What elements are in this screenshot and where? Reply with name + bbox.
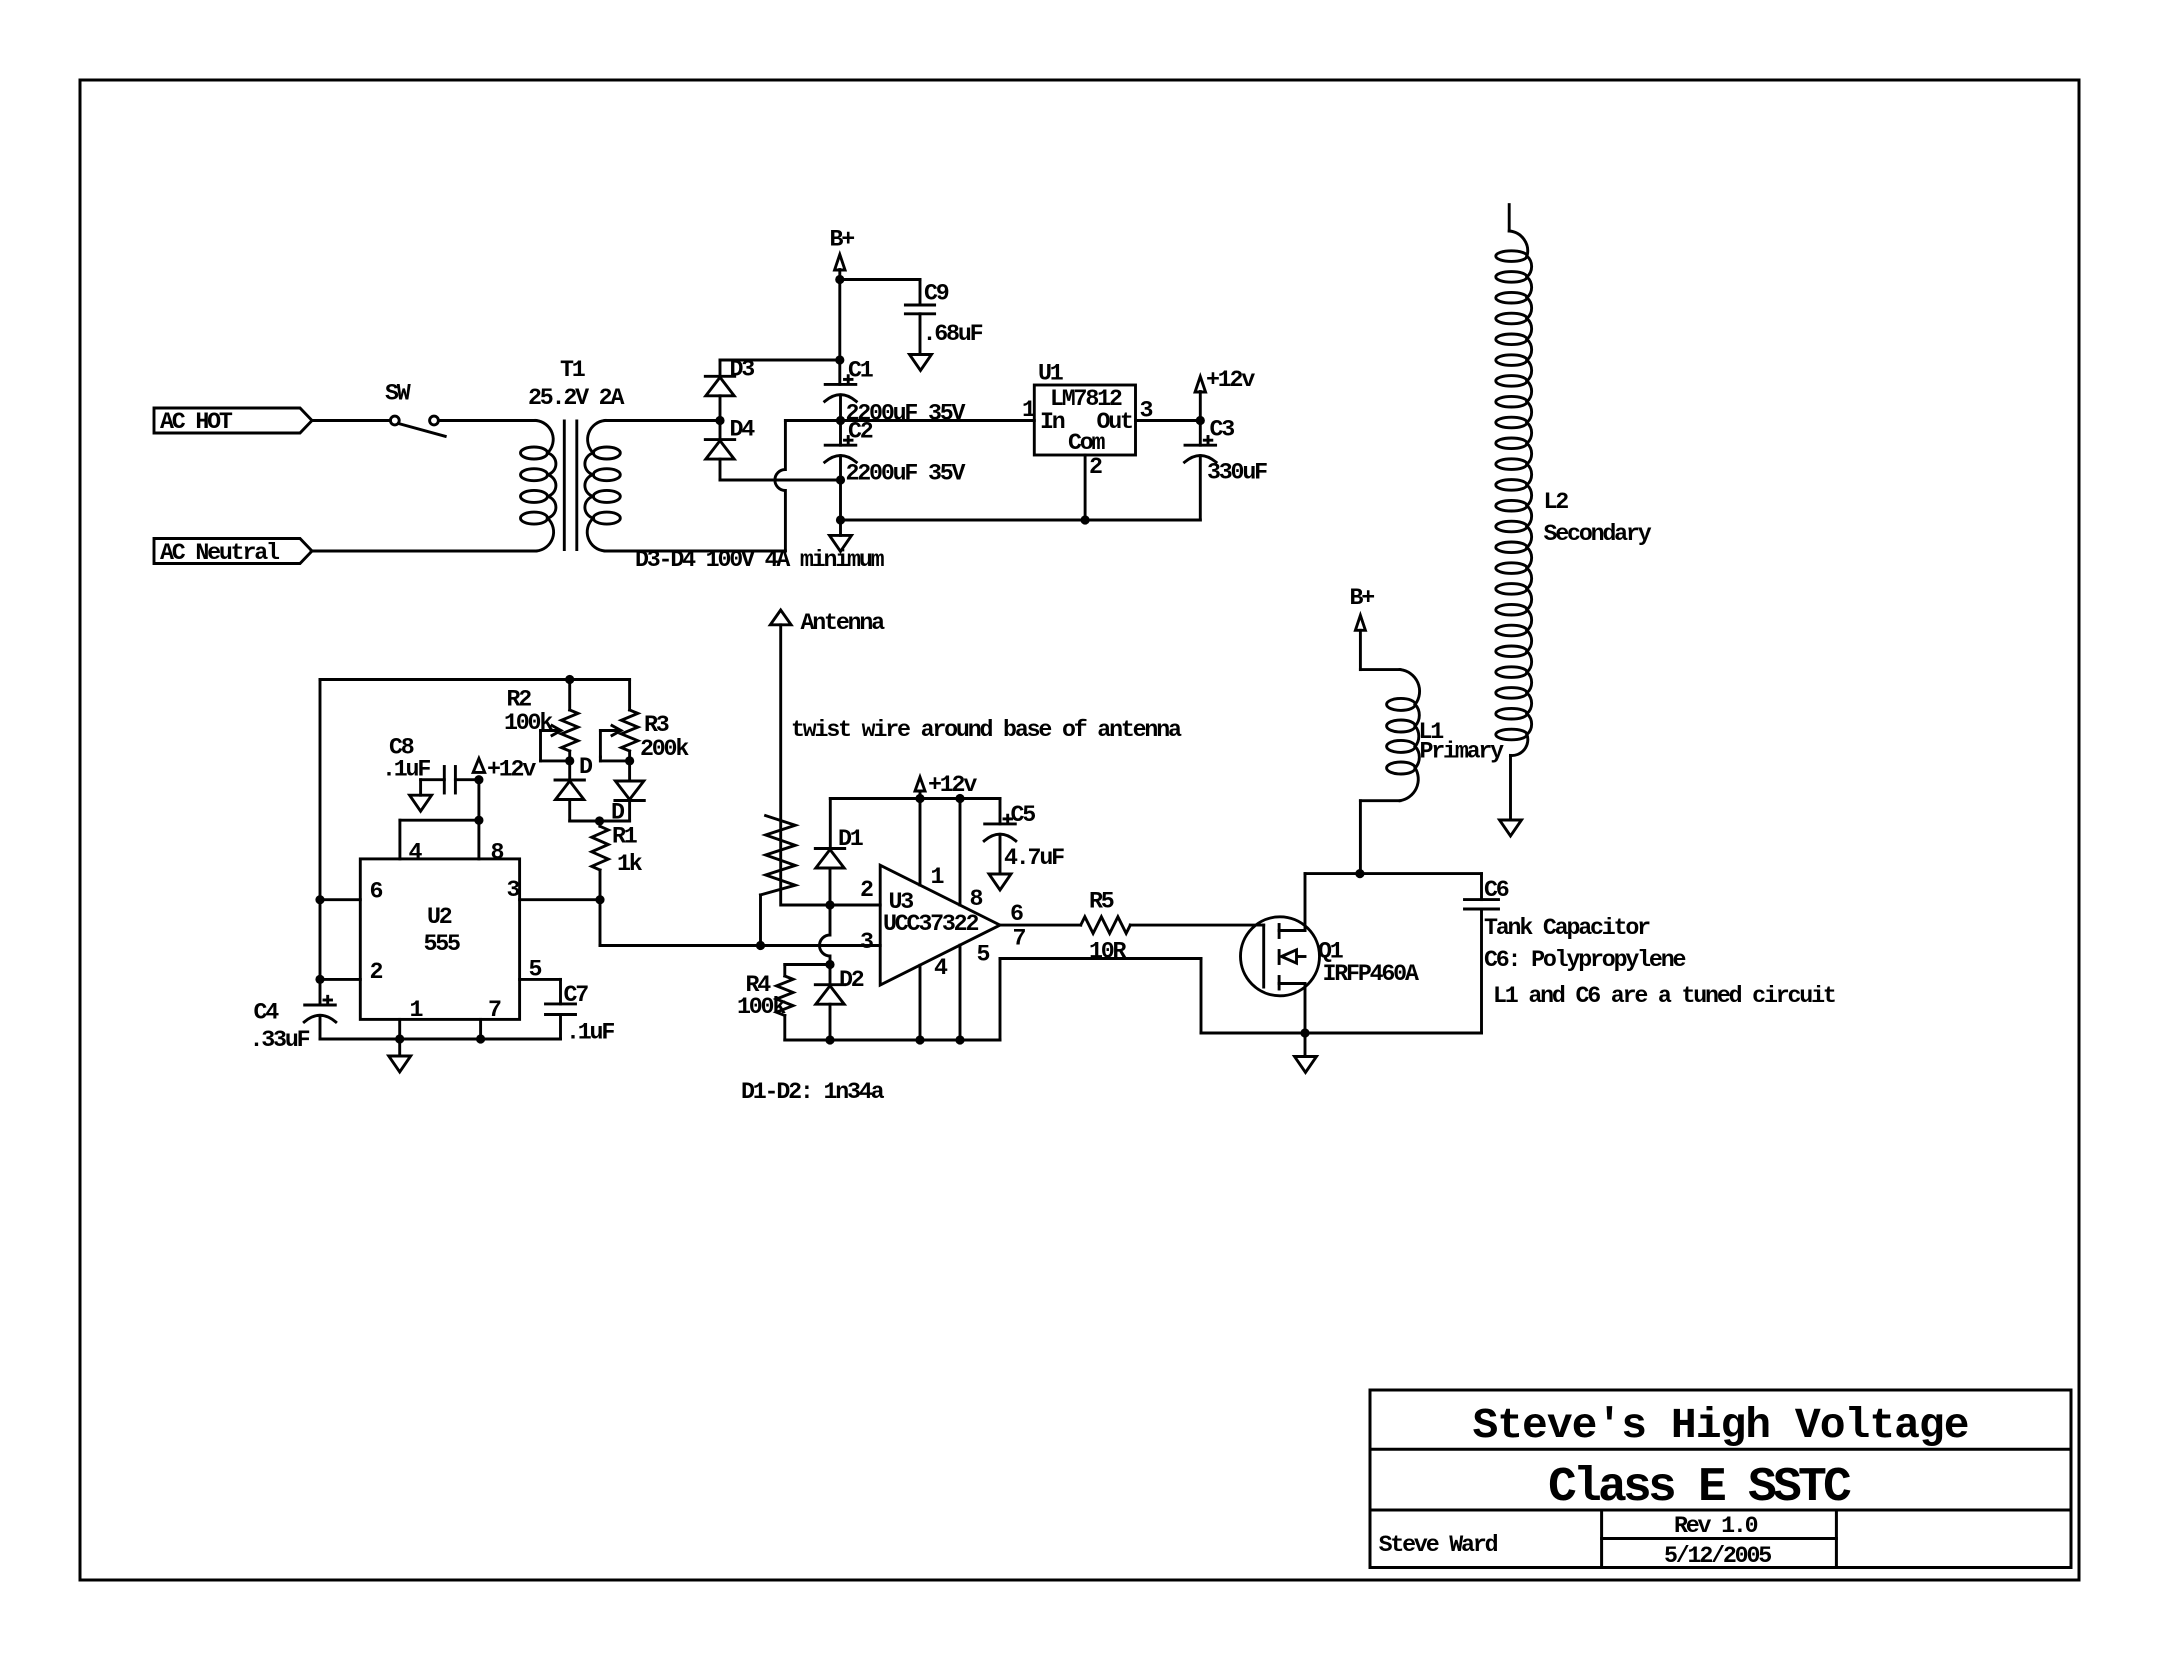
wire bbox=[1360, 799, 1400, 802]
wire bbox=[1200, 959, 1203, 1034]
wire bbox=[781, 904, 880, 907]
svg-text:Antenna: Antenna bbox=[801, 610, 886, 636]
title block vertical divider right bbox=[1835, 1510, 1838, 1568]
svg-text:C6: C6 bbox=[1484, 877, 1509, 903]
wire bbox=[419, 780, 422, 796]
Q1 gate bar bbox=[1262, 925, 1265, 987]
svg-text:2200uF 35V: 2200uF 35V bbox=[846, 461, 966, 487]
wire bbox=[628, 751, 631, 761]
svg-text:C7: C7 bbox=[564, 982, 589, 1008]
wire bbox=[628, 680, 631, 711]
svg-text:Com: Com bbox=[1068, 430, 1106, 456]
ground bbox=[830, 535, 852, 551]
wire bbox=[785, 963, 830, 966]
svg-text:1: 1 bbox=[931, 864, 944, 890]
regulator U1 box bbox=[1034, 385, 1135, 455]
node bbox=[565, 756, 574, 765]
wire bbox=[600, 944, 880, 947]
wire antenna bbox=[779, 625, 782, 905]
node bbox=[595, 816, 604, 825]
svg-text:3: 3 bbox=[860, 929, 873, 955]
node bbox=[476, 1034, 485, 1043]
wire bbox=[839, 395, 842, 421]
svg-text:R1: R1 bbox=[612, 824, 637, 850]
wire bbox=[311, 550, 536, 553]
wire bbox=[829, 868, 832, 905]
wire bbox=[312, 419, 390, 422]
diode D (right) bbox=[615, 781, 643, 800]
wire bbox=[719, 421, 722, 440]
svg-text:C6: Polypropylene: C6: Polypropylene bbox=[1484, 947, 1685, 973]
svg-text:+12v: +12v bbox=[487, 757, 536, 783]
svg-text:Tank Capacitor: Tank Capacitor bbox=[1484, 915, 1650, 941]
capacitor C9 bbox=[905, 304, 934, 307]
wire bbox=[838, 280, 841, 361]
resistor R5 bbox=[1081, 917, 1131, 934]
svg-text:C9: C9 bbox=[924, 281, 949, 307]
resistor R1 bbox=[592, 826, 609, 870]
node bbox=[1196, 416, 1205, 425]
svg-text:B+: B+ bbox=[830, 227, 855, 253]
capacitor C3 bbox=[1185, 444, 1216, 447]
svg-text:R3: R3 bbox=[644, 712, 669, 738]
twist wire zigzag bbox=[761, 816, 796, 895]
svg-text:U2: U2 bbox=[427, 904, 452, 930]
diode D2 bbox=[815, 983, 844, 986]
wire bbox=[785, 419, 1034, 422]
svg-text:Steve's High Voltage: Steve's High Voltage bbox=[1472, 1401, 1968, 1450]
svg-text:D4: D4 bbox=[730, 417, 756, 443]
wire bbox=[568, 800, 571, 822]
svg-text:5/12/2005: 5/12/2005 bbox=[1664, 1543, 1771, 1569]
svg-text:1: 1 bbox=[1022, 397, 1035, 423]
power arrow +12v bbox=[915, 777, 925, 791]
title block divider 1 bbox=[1370, 1448, 2071, 1451]
wire bbox=[919, 314, 922, 354]
wire bbox=[1480, 909, 1483, 1033]
svg-text:IRFP460A: IRFP460A bbox=[1323, 961, 1419, 987]
svg-text:D2: D2 bbox=[839, 967, 864, 993]
diode D3 bbox=[705, 375, 734, 378]
wire bbox=[1359, 630, 1362, 669]
wire bbox=[1084, 455, 1087, 520]
svg-text:In: In bbox=[1040, 409, 1065, 435]
wire with hop bbox=[820, 905, 830, 965]
wire bbox=[999, 959, 1002, 1041]
wire bbox=[320, 978, 360, 981]
wire bbox=[1304, 1033, 1307, 1057]
wire bbox=[455, 778, 479, 781]
R2 wiper bbox=[541, 729, 558, 732]
node bbox=[836, 515, 845, 524]
svg-text:330uF: 330uF bbox=[1207, 460, 1267, 486]
wire bbox=[559, 979, 562, 1004]
svg-text:100k: 100k bbox=[504, 710, 553, 736]
wire bbox=[398, 1039, 401, 1056]
wire bbox=[838, 270, 841, 280]
svg-text:8: 8 bbox=[970, 886, 983, 912]
svg-text:10R: 10R bbox=[1089, 939, 1127, 965]
wire bbox=[400, 819, 479, 822]
inductor L1 primary bbox=[1400, 670, 1420, 705]
capacitor C7 bbox=[546, 1002, 576, 1005]
svg-text:D3-D4 100V 4A minimum: D3-D4 100V 4A minimum bbox=[635, 547, 885, 573]
svg-text:UCC37322: UCC37322 bbox=[883, 911, 978, 937]
svg-text:C5: C5 bbox=[1011, 802, 1036, 828]
diode D1 bbox=[815, 847, 844, 850]
node bbox=[395, 1034, 404, 1043]
diode D4 bbox=[705, 438, 734, 441]
wire bbox=[839, 456, 842, 480]
svg-text:555: 555 bbox=[424, 931, 461, 957]
wire bbox=[1000, 924, 1081, 927]
ic U2 555 box bbox=[360, 859, 519, 1020]
switch SW bbox=[390, 416, 399, 425]
capacitor C4 bbox=[305, 1004, 336, 1007]
svg-text:Steve Ward: Steve Ward bbox=[1379, 1532, 1498, 1558]
wire bbox=[719, 396, 722, 421]
wire pin5 bbox=[959, 945, 962, 1040]
svg-text:R5: R5 bbox=[1089, 889, 1114, 915]
wire bbox=[568, 751, 571, 761]
wire bbox=[919, 791, 922, 799]
svg-text:8: 8 bbox=[491, 840, 504, 866]
wire bbox=[1480, 874, 1483, 900]
Q1 drain lead bbox=[1279, 929, 1305, 932]
wire bbox=[520, 978, 561, 981]
potentiometer R3 bbox=[621, 710, 638, 751]
wire bbox=[398, 1019, 401, 1039]
svg-text:2: 2 bbox=[860, 877, 873, 903]
svg-text:Rev 1.0: Rev 1.0 bbox=[1674, 1513, 1758, 1539]
wire bbox=[919, 280, 922, 306]
node bbox=[955, 794, 964, 803]
title block vertical divider left bbox=[1600, 1510, 1603, 1568]
wire bbox=[783, 965, 786, 977]
svg-text:3: 3 bbox=[507, 877, 520, 903]
svg-text:7: 7 bbox=[488, 997, 501, 1023]
svg-text:twist wire around base of ante: twist wire around base of antenna bbox=[791, 717, 1182, 743]
svg-text:D1-D2: 1n34a: D1-D2: 1n34a bbox=[741, 1079, 885, 1105]
svg-text:C1: C1 bbox=[848, 358, 873, 384]
capacitor C6 bbox=[1465, 898, 1499, 901]
node bbox=[756, 941, 765, 950]
node bbox=[825, 900, 834, 909]
svg-text:+12v: +12v bbox=[1206, 367, 1255, 393]
node bbox=[825, 1035, 834, 1044]
node bbox=[915, 1035, 924, 1044]
wire bbox=[841, 519, 1201, 522]
wire bbox=[477, 780, 480, 859]
wire bbox=[783, 1016, 786, 1041]
node bbox=[595, 895, 604, 904]
ground bbox=[389, 1056, 411, 1072]
wire bbox=[1130, 924, 1263, 927]
svg-text:.1uF: .1uF bbox=[566, 1020, 614, 1046]
node bbox=[836, 416, 845, 425]
diode D (left) bbox=[555, 779, 584, 782]
inductor L2 secondary bbox=[1509, 231, 1527, 256]
wire pin8 bbox=[959, 799, 962, 906]
wire bbox=[320, 678, 630, 681]
node D3-D4 junction bbox=[715, 416, 724, 425]
node bbox=[315, 895, 324, 904]
wire bbox=[829, 1004, 832, 1040]
wire bbox=[999, 799, 1002, 824]
wire bbox=[1136, 419, 1201, 422]
wire bbox=[421, 778, 445, 781]
wire bbox=[320, 1038, 561, 1041]
wire bbox=[719, 459, 722, 480]
wire bbox=[568, 680, 571, 711]
svg-text:SW: SW bbox=[385, 381, 411, 407]
wire bbox=[559, 1015, 562, 1040]
wire bbox=[720, 359, 840, 362]
ground bbox=[1500, 820, 1522, 836]
wire bbox=[829, 965, 832, 985]
antenna arrow bbox=[770, 610, 791, 625]
wire pin1 bbox=[919, 799, 922, 886]
svg-text:7: 7 bbox=[1013, 926, 1026, 952]
node bbox=[955, 1035, 964, 1044]
wire bbox=[568, 761, 571, 780]
wire pin4 bbox=[919, 965, 922, 1040]
transistor Q1 circle bbox=[1241, 917, 1320, 996]
node bbox=[315, 975, 324, 984]
wire bbox=[1199, 456, 1202, 520]
wire bbox=[1305, 1032, 1482, 1035]
svg-text:C4: C4 bbox=[254, 1000, 280, 1026]
wire bbox=[719, 360, 722, 376]
wire bbox=[1509, 756, 1512, 821]
svg-text:R2: R2 bbox=[507, 687, 532, 713]
node bbox=[835, 355, 844, 364]
Q1 source lead bbox=[1279, 982, 1305, 985]
svg-text:1: 1 bbox=[410, 997, 423, 1023]
svg-text:100k: 100k bbox=[737, 994, 786, 1020]
wire bbox=[1305, 872, 1482, 875]
node bbox=[565, 675, 574, 684]
wire bbox=[1359, 801, 1362, 874]
node bbox=[474, 816, 483, 825]
wire bbox=[605, 419, 720, 422]
wire bbox=[1199, 421, 1202, 446]
wire bbox=[628, 761, 631, 781]
svg-text:2: 2 bbox=[370, 959, 383, 985]
wire bbox=[720, 479, 841, 482]
node bbox=[474, 775, 483, 784]
wire L2 top bbox=[1508, 205, 1511, 231]
svg-text:2: 2 bbox=[1089, 454, 1102, 480]
wire bbox=[605, 550, 785, 553]
wire with hop bbox=[775, 421, 786, 552]
svg-text:.68uF: .68uF bbox=[923, 321, 983, 347]
wire bbox=[839, 480, 842, 520]
svg-text:C2: C2 bbox=[848, 419, 873, 445]
wire D1 top bbox=[829, 799, 832, 849]
wire bbox=[479, 1019, 482, 1039]
transformer T1 primary winding bbox=[536, 421, 553, 454]
svg-text:L1 and C6 are a tuned circuit: L1 and C6 are a tuned circuit bbox=[1493, 983, 1835, 1009]
transformer T1 secondary winding bbox=[588, 421, 605, 454]
ground bbox=[410, 795, 432, 811]
node bbox=[835, 275, 844, 284]
capacitor C8 bbox=[443, 767, 446, 794]
wire source bbox=[1304, 984, 1307, 1034]
wire bbox=[1201, 1032, 1305, 1035]
port AC HOT bbox=[154, 408, 312, 433]
svg-text:25.2V 2A: 25.2V 2A bbox=[528, 385, 624, 411]
capacitor C1 bbox=[825, 383, 856, 386]
svg-text:Secondary: Secondary bbox=[1544, 521, 1652, 547]
node bbox=[825, 960, 834, 969]
wire drain bbox=[1304, 874, 1307, 931]
wire bbox=[599, 821, 602, 826]
wire bbox=[398, 820, 401, 859]
power arrow B+ bbox=[1355, 615, 1365, 630]
svg-text:1k: 1k bbox=[617, 851, 643, 877]
ground bbox=[989, 874, 1011, 890]
wire bbox=[628, 801, 631, 822]
wire bbox=[319, 1016, 322, 1039]
svg-text:AC Neutral: AC Neutral bbox=[160, 540, 280, 566]
svg-text:200k: 200k bbox=[640, 736, 689, 762]
wire bbox=[599, 870, 602, 900]
node bbox=[1300, 1028, 1309, 1037]
node bbox=[1355, 869, 1364, 878]
svg-text:5: 5 bbox=[977, 942, 990, 968]
svg-text:+12v: +12v bbox=[928, 772, 977, 798]
svg-text:4.7uF: 4.7uF bbox=[1004, 845, 1064, 871]
wire bbox=[839, 421, 842, 446]
wire bbox=[320, 898, 360, 901]
ground bbox=[910, 355, 932, 371]
wire bbox=[999, 835, 1002, 875]
power arrow B+ bbox=[835, 255, 846, 271]
node bbox=[1081, 515, 1090, 524]
R3 wiper bbox=[600, 729, 617, 732]
wire bbox=[599, 900, 602, 946]
wire bbox=[830, 797, 1000, 800]
wire bbox=[839, 520, 842, 535]
title block outline bbox=[1370, 1390, 2071, 1568]
wire bbox=[1000, 957, 1201, 960]
svg-text:B+: B+ bbox=[1350, 585, 1375, 611]
transformer core bbox=[563, 421, 566, 550]
node bbox=[836, 475, 845, 484]
wire bbox=[570, 820, 630, 823]
svg-text:.33uF: .33uF bbox=[250, 1027, 310, 1053]
power arrow +12v bbox=[473, 758, 485, 772]
power arrow +12v bbox=[1195, 377, 1206, 393]
potentiometer R2 bbox=[561, 710, 578, 751]
wire bbox=[438, 419, 536, 422]
wire bbox=[319, 680, 322, 1006]
wire bbox=[838, 360, 841, 384]
wire bbox=[1360, 668, 1400, 671]
capacitor C2 bbox=[825, 444, 856, 447]
svg-text:T1: T1 bbox=[560, 357, 585, 383]
svg-text:D1: D1 bbox=[838, 826, 863, 852]
node bbox=[625, 756, 634, 765]
title block divider 2 bbox=[1370, 1509, 2071, 1512]
wire bbox=[785, 1039, 1000, 1042]
svg-text:Primary: Primary bbox=[1420, 739, 1505, 765]
Q1 channel bbox=[1278, 925, 1281, 938]
svg-text:AC HOT: AC HOT bbox=[160, 409, 233, 435]
wire bbox=[840, 278, 920, 281]
svg-text:Class E SSTC: Class E SSTC bbox=[1548, 1461, 1851, 1515]
wire bbox=[1199, 392, 1202, 421]
port AC Neutral bbox=[154, 539, 312, 564]
capacitor C5 bbox=[985, 822, 1016, 825]
resistor R4 bbox=[777, 976, 794, 1016]
svg-text:L2: L2 bbox=[1544, 489, 1569, 515]
node bbox=[915, 794, 924, 803]
wire bbox=[520, 898, 600, 901]
driver U3 triangle bbox=[880, 865, 1000, 985]
svg-text:6: 6 bbox=[1010, 901, 1023, 927]
svg-text:C3: C3 bbox=[1210, 417, 1235, 443]
ground bbox=[1295, 1057, 1317, 1073]
svg-text:6: 6 bbox=[370, 879, 383, 905]
svg-text:U1: U1 bbox=[1038, 361, 1063, 387]
Q1 body arrow bbox=[1297, 955, 1305, 958]
title block rev/date divider bbox=[1602, 1537, 1837, 1540]
